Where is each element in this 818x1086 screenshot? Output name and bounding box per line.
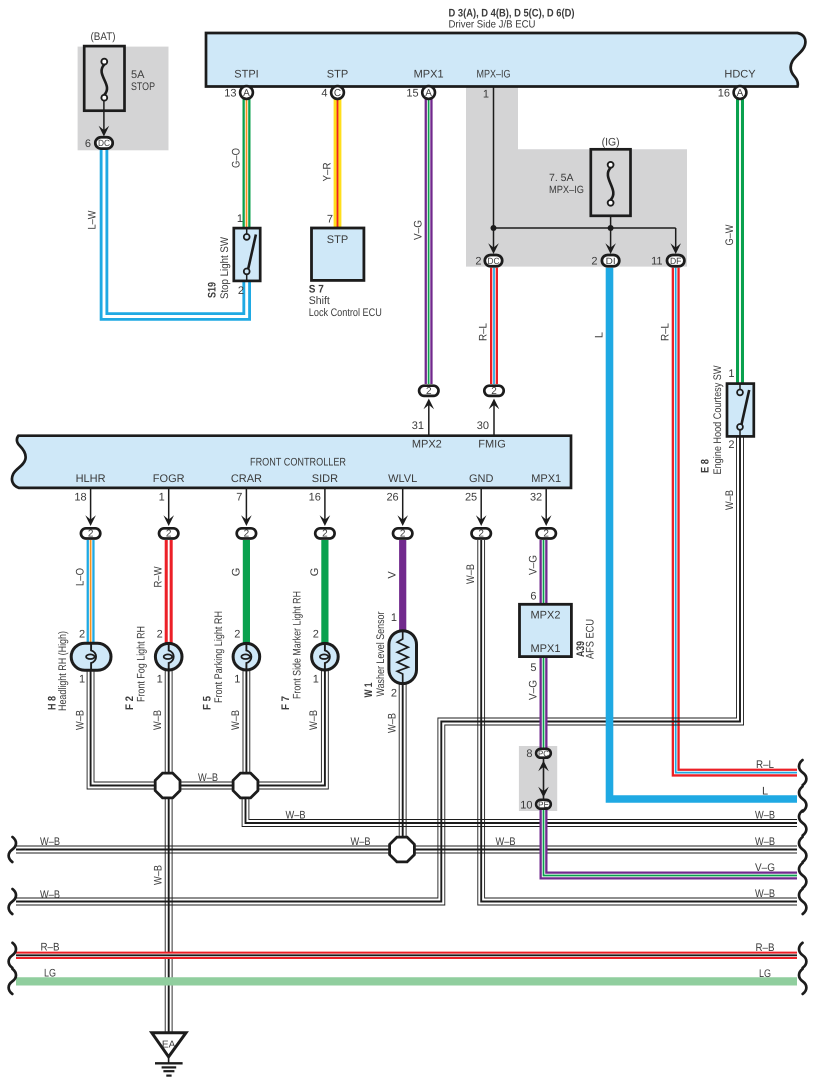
svg-text:V–G: V–G — [413, 220, 425, 240]
wire R-L from connector DC to FRONT CONTROLLER FMIG — [490, 268, 498, 384]
break symbol left y=901.5 — [9, 889, 16, 914]
fuse 5A STOP (BAT) — [84, 46, 124, 111]
arrow down into connector PE — [538, 787, 549, 798]
svg-text:EA: EA — [162, 1040, 176, 1051]
break symbol right y=981.4 — [799, 969, 806, 994]
svg-text:10: 10 — [520, 800, 532, 812]
svg-text:W–B: W–B — [286, 810, 306, 822]
wire link between connectors PC and PE — [543, 757, 545, 800]
svg-text:HDCY: HDCY — [724, 69, 756, 81]
svg-text:A: A — [737, 88, 744, 99]
wire W-B from E8 Engine Hood Courtesy SW down, left, down, to left break — [16, 436, 744, 905]
wire W-B from F2 fog light through junction J/C 1 to ground EA — [171, 668, 173, 1032]
svg-text:11: 11 — [651, 256, 662, 268]
svg-text:2: 2 — [728, 439, 734, 451]
arrow fuse 5A STOP into connector DC — [99, 126, 110, 137]
svg-text:1: 1 — [79, 674, 85, 686]
svg-text:V: V — [387, 571, 399, 579]
svg-text:MPX–IG: MPX–IG — [477, 69, 511, 81]
svg-text:(IG): (IG) — [602, 137, 620, 149]
ECU box FRONT CONTROLLER — [12, 436, 571, 488]
svg-text:V–G: V–G — [755, 862, 775, 874]
wire stub FRONT CONTROLLER pin at x=402.7 to arrow — [402, 488, 404, 521]
svg-text:V–G: V–G — [528, 680, 540, 700]
break symbol left y=981.4 — [9, 969, 16, 994]
wire W-B from F5 parking light to junction J/C 2 — [249, 668, 251, 783]
pin 15 (A) MPX1 — [422, 86, 435, 99]
svg-text:Engine Hood Courtesy SW: Engine Hood Courtesy SW — [712, 365, 724, 475]
svg-text:W–B: W–B — [755, 810, 775, 822]
arrow into connector 2 below FRONT CONTROLLER x=168.7 — [163, 515, 174, 526]
svg-text:W–B: W–B — [152, 710, 164, 730]
connector 2 at FMIG — [484, 386, 503, 396]
svg-text:W–B: W–B — [387, 713, 399, 733]
junction J/C 3 — [390, 837, 415, 862]
svg-text:SIDR: SIDR — [312, 473, 338, 485]
connector 6 DC — [95, 137, 112, 148]
svg-text:18: 18 — [74, 492, 86, 504]
svg-text:R–B: R–B — [756, 942, 775, 954]
arrow into connector DF — [670, 243, 681, 254]
wire G-O from J/B STPI to S19 stop light switch — [243, 99, 251, 229]
ECU box S7 Shift Lock Control ECU — [312, 228, 364, 280]
resistor W1 Washer Level Sensor — [389, 631, 417, 684]
wire from J/B MPX-IG pin 1 down to junction — [493, 87, 495, 229]
arrow into connector 2 below FRONT CONTROLLER x=481.2 — [476, 515, 487, 526]
lamp F2 Front Fog Light RH — [155, 643, 182, 670]
svg-text:HLHR: HLHR — [76, 473, 106, 485]
wire fuse 5A STOP to connector DC — [103, 100, 105, 133]
svg-text:Driver Side J/B ECU: Driver Side J/B ECU — [449, 19, 536, 31]
connector 11 DF — [667, 255, 684, 266]
lamp H8 Headlight RH (High) — [71, 643, 111, 670]
svg-text:W–B: W–B — [40, 836, 60, 848]
svg-text:L–W: L–W — [87, 210, 99, 230]
svg-text:MPX2: MPX2 — [412, 439, 442, 451]
svg-text:G: G — [230, 568, 242, 577]
svg-text:G: G — [309, 568, 321, 577]
ground EA — [152, 1033, 186, 1057]
wire stub FRONT CONTROLLER pin at x=546.2 to arrow — [545, 488, 547, 521]
arrow into connector DC — [488, 243, 499, 254]
arrow into connector DI — [605, 243, 616, 254]
svg-text:DF: DF — [670, 256, 682, 266]
wire L-O from FRONT CONTROLLER HLHR to H8 headlight — [87, 540, 95, 645]
svg-text:2: 2 — [157, 629, 163, 641]
switch S19 Stop Light SW — [234, 228, 260, 281]
arrow into connector 2 below FRONT CONTROLLER x=546.2 — [541, 515, 552, 526]
connector 2 below FRONT CONTROLLER x=481.2 — [472, 528, 491, 538]
svg-text:F 7: F 7 — [280, 696, 292, 710]
wire L from connector DI right to break — [610, 268, 798, 799]
svg-text:32: 32 — [530, 492, 542, 504]
connector 10 PE — [536, 800, 551, 809]
ECU box A39 AFS ECU — [520, 604, 572, 656]
svg-text:7: 7 — [236, 492, 242, 504]
shaded area MPX-IG fuse circuit — [466, 86, 687, 267]
svg-text:1: 1 — [313, 674, 319, 686]
wire L-W from connector DC to S19 stop light switch — [104, 150, 247, 317]
svg-text:DC: DC — [488, 256, 500, 266]
pin 13 (A) STPI — [240, 86, 253, 99]
svg-text:STP: STP — [327, 69, 348, 81]
svg-text:2: 2 — [475, 256, 481, 268]
svg-text:WLVL: WLVL — [388, 473, 417, 485]
svg-text:LG: LG — [759, 968, 771, 980]
svg-text:W–B: W–B — [724, 490, 736, 510]
wire V-G from FRONT CONTROLLER MPX1 through A39 to connector PC — [540, 540, 548, 750]
svg-text:MPX1: MPX1 — [414, 69, 444, 81]
connector 2 at MPX2 — [419, 386, 438, 396]
svg-text:L: L — [762, 786, 768, 798]
arrow up into connector PC — [538, 761, 549, 772]
svg-text:W–B: W–B — [755, 888, 775, 900]
svg-text:Front Side Marker Light RH: Front Side Marker Light RH — [291, 591, 303, 699]
svg-text:R–L: R–L — [756, 759, 774, 771]
svg-text:MPX2: MPX2 — [531, 610, 561, 622]
lamp F7 Front Side Marker Light RH — [312, 643, 339, 670]
svg-text:DI: DI — [606, 256, 616, 266]
break symbol right y=901.5 — [799, 889, 806, 914]
svg-text:W–B: W–B — [40, 889, 60, 901]
svg-text:5A: 5A — [131, 69, 145, 81]
svg-text:Lock Control ECU: Lock Control ECU — [309, 307, 382, 319]
wire G from FRONT CONTROLLER CRAR to F5 parking light — [243, 540, 250, 645]
break symbol left y=849.5 — [9, 837, 16, 862]
break symbol right y=799 — [799, 787, 806, 812]
svg-text:S19: S19 — [207, 282, 219, 298]
shaded area connectors PC/PE — [519, 746, 557, 811]
svg-text:15: 15 — [406, 88, 418, 100]
break symbol right y=823 — [799, 811, 806, 836]
svg-text:G–O: G–O — [231, 148, 243, 168]
svg-text:FMIG: FMIG — [478, 439, 506, 451]
svg-text:2: 2 — [391, 688, 397, 700]
svg-text:Y–R: Y–R — [322, 162, 334, 181]
svg-text:2: 2 — [244, 529, 250, 540]
svg-text:8: 8 — [526, 748, 532, 760]
arrow into connector 2 below FRONT CONTROLLER x=324.9 — [320, 515, 331, 526]
connector 2 below FRONT CONTROLLER x=402.7 — [393, 528, 412, 538]
svg-text:Stop Light SW: Stop Light SW — [219, 236, 231, 299]
break symbol left y=955.3 — [9, 943, 16, 968]
pin 16 (A) HDCY — [734, 86, 747, 99]
wire R-L from connector DF right to break — [676, 268, 797, 773]
wire LG horizontal bus — [16, 977, 797, 985]
connector 2 DI — [602, 255, 619, 266]
wire junction horizontal to DI and DF — [494, 227, 676, 229]
svg-text:1: 1 — [157, 674, 163, 686]
svg-text:7. 5A: 7. 5A — [549, 172, 574, 184]
svg-text:2: 2 — [234, 629, 240, 641]
ECU box D3/D4/D5/D6 Driver Side J/B ECU — [206, 33, 805, 87]
wire stub FRONT CONTROLLER pin at x=168.7 to arrow — [168, 488, 170, 521]
svg-text:Shift: Shift — [309, 295, 330, 307]
svg-text:2: 2 — [491, 386, 497, 397]
svg-text:W 1: W 1 — [363, 683, 375, 698]
wire V-G from connector PE down and right to break — [544, 808, 798, 876]
wire G from FRONT CONTROLLER SIDR to F7 side marker light — [321, 540, 328, 645]
wire stub fuse MPX-IG to junction and connector DI — [610, 216, 612, 249]
svg-text:GND: GND — [469, 473, 494, 485]
svg-text:30: 30 — [477, 420, 489, 432]
junction J/C 2 — [233, 773, 258, 798]
break symbol right y=875.5 — [799, 863, 806, 888]
wire Y-R from J/B STP to S7 shift lock ECU — [334, 99, 342, 229]
wire stub FRONT CONTROLLER pin at x=481.2 to arrow — [480, 488, 482, 521]
arrow into connector 2 below FRONT CONTROLLER x=402.7 — [397, 515, 408, 526]
svg-text:STOP: STOP — [131, 81, 155, 93]
junction dot at MPX-IG branch — [491, 225, 497, 231]
wire W-B from FRONT CONTROLLER GND down and right to break — [485, 540, 797, 898]
svg-text:5: 5 — [530, 662, 536, 674]
svg-text:6: 6 — [85, 138, 91, 150]
wire R-W from FRONT CONTROLLER FOGR to F2 fog light — [165, 540, 173, 645]
svg-text:W–B: W–B — [153, 865, 165, 885]
switch E8 Engine Hood Courtesy SW — [727, 384, 754, 437]
svg-text:CRAR: CRAR — [231, 473, 262, 485]
svg-text:R–L: R–L — [478, 323, 490, 341]
svg-text:Front Parking Light RH: Front Parking Light RH — [213, 611, 225, 703]
svg-text:PE: PE — [538, 799, 549, 809]
svg-text:6: 6 — [530, 591, 536, 603]
svg-text:C: C — [334, 88, 341, 99]
svg-text:16: 16 — [718, 88, 730, 100]
wire G-W from J/B HDCY to E8 engine hood courtesy switch — [736, 99, 744, 385]
svg-text:1: 1 — [483, 89, 489, 101]
svg-text:1: 1 — [237, 213, 243, 225]
svg-text:2: 2 — [591, 256, 597, 268]
svg-text:W–B: W–B — [230, 710, 242, 730]
arrow up into FMIG connector 2 — [489, 399, 500, 410]
svg-text:Headlight RH (High): Headlight RH (High) — [57, 631, 69, 711]
junction dot below fuse MPX-IG — [608, 225, 614, 231]
svg-text:Front Fog Light RH: Front Fog Light RH — [135, 626, 147, 702]
pin 4 (C) STP — [331, 86, 344, 99]
wire W-B link junction J/C 1 to junction J/C 2 — [168, 781, 246, 783]
svg-text:F 2: F 2 — [124, 696, 136, 710]
svg-text:(BAT): (BAT) — [91, 31, 116, 43]
arrow into connector 2 below FRONT CONTROLLER x=246.4 — [241, 515, 252, 526]
svg-text:W–B: W–B — [308, 710, 320, 730]
svg-text:G–W: G–W — [724, 224, 736, 246]
svg-text:PC: PC — [538, 748, 549, 758]
svg-text:7: 7 — [327, 214, 333, 226]
wire W-B horizontal bus through junction J/C 3 — [16, 845, 797, 847]
svg-text:MPX1: MPX1 — [531, 473, 561, 485]
svg-text:16: 16 — [309, 492, 321, 504]
svg-text:13: 13 — [224, 88, 236, 100]
connector 2 below FRONT CONTROLLER x=168.7 — [159, 528, 178, 538]
svg-text:2: 2 — [426, 386, 432, 397]
svg-text:S 7: S 7 — [309, 284, 324, 296]
svg-text:W–B: W–B — [75, 710, 87, 730]
svg-text:1: 1 — [391, 612, 397, 624]
svg-text:31: 31 — [412, 420, 424, 432]
wire stub FRONT CONTROLLER MPX2 to arrow — [428, 405, 430, 436]
svg-text:STPI: STPI — [234, 69, 258, 81]
svg-text:2: 2 — [166, 529, 172, 540]
arrow up into MPX2 connector 2 — [424, 399, 435, 410]
break symbol right y=849.5 — [799, 837, 806, 862]
connector 2 below FRONT CONTROLLER x=546.2 — [537, 528, 556, 538]
wire W-B from junction J/C down and right to break — [249, 787, 797, 820]
svg-text:MPX–IG: MPX–IG — [549, 184, 584, 196]
wire V from FRONT CONTROLLER WLVL to W1 washer level sensor — [399, 540, 406, 632]
svg-text:R–W: R–W — [153, 566, 165, 588]
connector 2 below FRONT CONTROLLER x=324.9 — [315, 528, 334, 538]
svg-text:1: 1 — [234, 674, 240, 686]
wire W-B from W1 washer level sensor to junction J/C 3 — [405, 681, 407, 846]
svg-text:2: 2 — [88, 529, 94, 540]
svg-text:W–B: W–B — [198, 772, 218, 784]
svg-text:R–B: R–B — [41, 942, 60, 954]
wire W-B from H8 headlight to junction J/C 1 — [94, 668, 165, 782]
svg-text:1: 1 — [728, 368, 734, 380]
connector 8 PC — [536, 749, 551, 758]
wire stub FRONT CONTROLLER FMIG to arrow — [493, 405, 495, 436]
lamp F5 Front Parking Light RH — [233, 643, 260, 670]
svg-text:AFS ECU: AFS ECU — [585, 619, 597, 659]
wire stub FRONT CONTROLLER pin at x=246.4 to arrow — [245, 488, 247, 521]
connector 2 below FRONT CONTROLLER x=246.4 — [237, 528, 256, 538]
svg-text:W–B: W–B — [351, 836, 371, 848]
wire stub junction to connector DF — [675, 228, 677, 249]
svg-text:1: 1 — [159, 492, 165, 504]
svg-text:FOGR: FOGR — [153, 473, 185, 485]
wire W-B from F7 side marker light left to junction J/C 2 — [250, 668, 328, 789]
connector 2 below FRONT CONTROLLER x=90.6 — [81, 528, 100, 538]
svg-text:W–B: W–B — [755, 836, 775, 848]
svg-text:2: 2 — [238, 285, 244, 297]
svg-text:2: 2 — [400, 529, 406, 540]
svg-text:E 8: E 8 — [699, 459, 711, 473]
svg-text:DC: DC — [98, 138, 110, 148]
svg-text:A: A — [243, 88, 250, 99]
arrow into connector 2 below FRONT CONTROLLER x=90.6 — [85, 515, 96, 526]
svg-text:25: 25 — [465, 492, 477, 504]
svg-text:A: A — [425, 88, 432, 99]
svg-text:MPX1: MPX1 — [531, 643, 561, 655]
svg-text:Washer Level Sensor: Washer Level Sensor — [375, 611, 387, 696]
svg-text:2: 2 — [313, 629, 319, 641]
break symbol right y=955.3 — [799, 943, 806, 968]
svg-text:4: 4 — [321, 88, 327, 100]
svg-text:2: 2 — [543, 529, 549, 540]
svg-text:W–B: W–B — [465, 564, 477, 584]
svg-text:2: 2 — [478, 529, 484, 540]
svg-text:LG: LG — [44, 968, 56, 980]
svg-text:F 5: F 5 — [202, 696, 214, 710]
svg-text:FRONT CONTROLLER: FRONT CONTROLLER — [250, 457, 346, 469]
svg-text:STP: STP — [327, 234, 348, 246]
shaded area around fuse 5A STOP — [78, 47, 169, 151]
break symbol right y=772.6 — [799, 760, 806, 785]
svg-text:R–L: R–L — [660, 323, 672, 341]
svg-text:W–B: W–B — [496, 836, 516, 848]
wire stub FRONT CONTROLLER pin at x=90.6 to arrow — [90, 488, 92, 521]
svg-text:26: 26 — [386, 492, 398, 504]
svg-text:V–G: V–G — [528, 555, 540, 575]
svg-text:L–O: L–O — [75, 568, 87, 586]
wire R-B horizontal bus — [16, 952, 797, 959]
wire stub FRONT CONTROLLER pin at x=324.9 to arrow — [324, 488, 326, 521]
svg-text:2: 2 — [322, 529, 328, 540]
svg-text:L: L — [594, 332, 606, 338]
wire stub junction to connector DC — [493, 228, 495, 249]
junction J/C 1 — [155, 773, 180, 798]
wire V-G from J/B MPX1 to FRONT CONTROLLER MPX2 — [425, 99, 433, 384]
svg-text:2: 2 — [79, 629, 85, 641]
fuse 7.5A MPX-IG (IG) — [591, 149, 631, 216]
connector 2 DC — [485, 255, 502, 266]
